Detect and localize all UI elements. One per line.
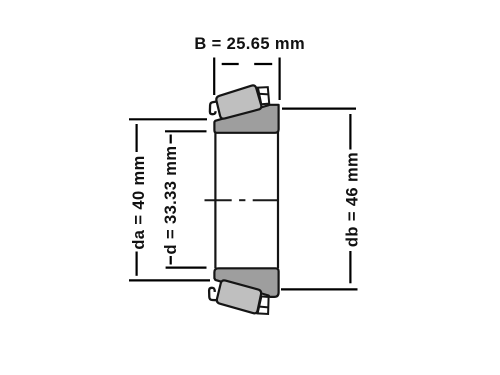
dimension da vertical line lower segment	[136, 252, 138, 276]
cage bar top-right white strip	[258, 87, 269, 104]
inner ring body right edge	[277, 132, 279, 268]
cage hook bottom-left	[209, 288, 216, 300]
inner ring body left edge	[214, 132, 216, 268]
cage bar bottom-right white strip	[258, 296, 269, 314]
dimension B left extension tick	[213, 58, 215, 96]
dimension db vertical line lower segment	[349, 251, 351, 283]
dimension d top extension line	[165, 130, 207, 132]
dimension B right extension tick	[279, 58, 281, 101]
dimension db bottom extension line	[281, 288, 358, 290]
dimension da vertical line upper segment	[136, 124, 138, 152]
svg-text:db = 46 mm: db = 46 mm	[344, 152, 362, 247]
dimension d vertical line upper segment	[170, 135, 172, 144]
dimension da bottom extension line	[129, 279, 210, 281]
dimension B line dash left	[222, 63, 239, 65]
centerline short dash middle	[239, 199, 245, 201]
cage bar top-right crossbar	[259, 93, 269, 96]
centerline dash long right	[253, 199, 279, 201]
dimension db vertical line upper segment	[349, 114, 351, 150]
centerline dash long left	[205, 199, 232, 201]
svg-text:B = 25.65 mm: B = 25.65 mm	[194, 35, 305, 53]
cage bar bottom-right crossbar	[259, 306, 269, 309]
svg-text:da = 40 mm: da = 40 mm	[130, 155, 148, 249]
dimension db top extension line	[282, 107, 356, 109]
roller bottom	[217, 280, 261, 313]
outer ring top cross-section	[214, 105, 278, 133]
outer ring bottom cross-section	[214, 268, 278, 297]
dimension d vertical line lower segment	[170, 256, 172, 265]
svg-text:d = 33.33 mm: d = 33.33 mm	[162, 146, 180, 255]
dimension da top extension line	[129, 118, 207, 120]
dimension d bottom extension line	[166, 267, 207, 269]
cage hook top-left	[210, 102, 216, 115]
roller top	[216, 85, 261, 118]
dimension B line dash right	[254, 63, 272, 65]
